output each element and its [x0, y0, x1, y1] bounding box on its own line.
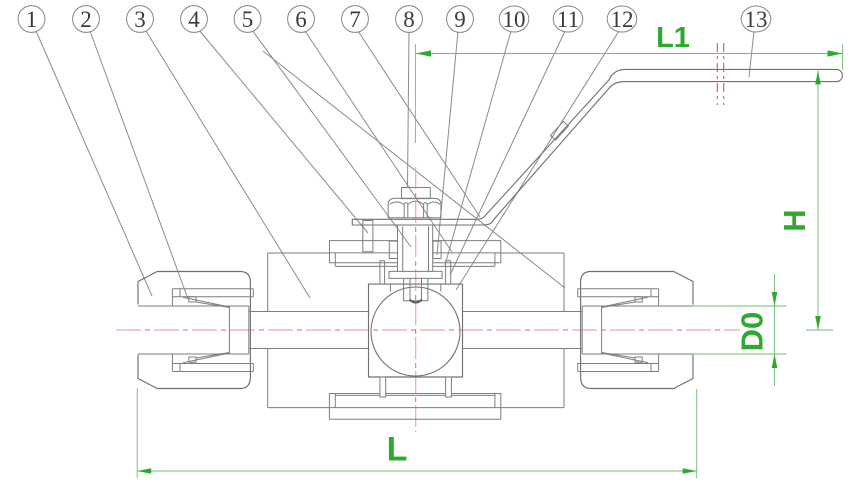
right fitting port bottom line: [582, 353, 693, 355]
left fitting port top line: [138, 305, 249, 307]
svg-text:1: 1: [26, 7, 38, 32]
callout circle 6: [288, 6, 315, 33]
leader 3: [146, 31, 310, 298]
body right face: [563, 253, 565, 408]
leader 13: [749, 31, 754, 77]
left bore top line: [249, 311, 369, 313]
svg-text:10: 10: [503, 7, 526, 32]
packing block right: [433, 241, 441, 258]
left fitting thread band top: [172, 289, 253, 297]
svg-text:7: 7: [349, 7, 361, 32]
callout circle 5: [234, 6, 261, 33]
leader 5 second segment: [263, 51, 565, 288]
callout circle 13: [741, 6, 771, 32]
L1 extension line right: [842, 44, 844, 70]
body top edge left: [268, 252, 330, 254]
callout circle 10: [499, 6, 529, 32]
leader 10: [445, 31, 511, 265]
left seat vertical: [228, 306, 230, 354]
right ferrule block top: [635, 297, 642, 302]
leader 9: [437, 31, 458, 255]
left fitting inner wall: [172, 289, 180, 372]
right fitting port top line: [582, 305, 693, 307]
right fitting thread band bottom: [578, 364, 659, 372]
L left arrow: [137, 468, 151, 474]
trunnion pin bottom-left: [380, 377, 386, 397]
body neck lip lines: [335, 263, 495, 267]
body bottom edge right: [501, 407, 564, 409]
right fitting nut outline: [581, 272, 693, 389]
hex nut facet band left: [404, 203, 408, 218]
left fitting nut outline: [138, 272, 250, 389]
stem slot outer: [404, 278, 428, 300]
leader 8: [408, 31, 410, 187]
right seat vertical: [601, 306, 603, 354]
stem housing inner lines: [403, 227, 429, 272]
L extension line left: [136, 388, 138, 478]
right bore top line: [463, 311, 583, 313]
leader 4: [199, 30, 368, 233]
left tube end vertical: [248, 306, 250, 354]
leader 12: [456, 31, 619, 290]
leader 1: [36, 31, 152, 296]
left ferrule cone bottom: [183, 353, 229, 363]
stem top: [402, 188, 431, 199]
callout numbers: [26, 7, 768, 32]
cage inner corner line left: [389, 284, 391, 291]
right ferrule cone bottom: [602, 353, 648, 363]
gland plate: [389, 271, 442, 278]
right fitting thread band top: [578, 289, 659, 297]
ball: [371, 287, 460, 376]
D0 bottom arrow (up): [772, 354, 778, 368]
stem slot bottom arc: [410, 300, 423, 303]
svg-text:9: 9: [454, 7, 466, 32]
left bore bottom line: [249, 348, 369, 350]
horizontal main centerline (long dashes): [116, 329, 740, 331]
body bottom edge left: [268, 407, 330, 409]
svg-text:6: 6: [295, 7, 307, 32]
callout circle 3: [127, 6, 154, 33]
left ferrule block top: [189, 297, 196, 302]
leader 5: [252, 30, 411, 247]
top plate left tab: [330, 253, 398, 263]
callout circle 7: [342, 6, 369, 33]
bottom plate left tab: [329, 394, 335, 408]
handle break mark right: [723, 43, 725, 105]
leader 7: [358, 31, 480, 217]
H top arrow (up): [815, 71, 821, 85]
callout circle 2: [73, 6, 100, 33]
body top edge right: [501, 252, 564, 254]
hex nut: [388, 198, 441, 218]
right fitting inner wall: [651, 289, 659, 372]
L1 right arrow: [828, 50, 843, 56]
L1 dimension line: [415, 53, 842, 55]
left ferrule block bottom: [189, 357, 196, 362]
svg-text:L: L: [387, 431, 408, 469]
svg-text:5: 5: [242, 7, 254, 32]
L1 left arrow: [416, 50, 431, 56]
svg-text:3: 3: [134, 7, 146, 32]
left ferrule cone top: [183, 297, 229, 307]
handle: [352, 69, 842, 225]
bottom plate right tab: [495, 394, 501, 408]
svg-text:H: H: [777, 209, 812, 231]
svg-text:12: 12: [611, 7, 634, 32]
right ferrule cone top: [602, 297, 648, 307]
handle grip sleeve: [551, 121, 569, 140]
svg-text:D0: D0: [734, 312, 769, 352]
svg-text:8: 8: [403, 7, 415, 32]
left fitting port bottom line: [138, 353, 249, 355]
callout circle 1: [18, 6, 45, 33]
hex nut facet band right: [424, 203, 428, 218]
vertical stem centerline (short ticks): [415, 167, 417, 432]
cage inner corner line right: [440, 284, 442, 291]
hex nut middle dome: [408, 201, 424, 204]
body left face: [267, 253, 269, 408]
stem housing: [398, 226, 433, 272]
cage box: [369, 284, 463, 377]
vertical stem centerline (long dashes): [415, 167, 417, 432]
right bore bottom line: [463, 348, 583, 350]
D0 top arrow (down): [772, 292, 778, 306]
D0 dimension line: [774, 274, 776, 386]
callout circle 12: [607, 6, 637, 32]
svg-text:2: 2: [80, 7, 92, 32]
callout circle 8: [396, 6, 423, 33]
L1 extension line left: [414, 44, 416, 143]
L extension line right: [696, 389, 698, 478]
hex nut side arcs: [390, 202, 441, 205]
L dimension line: [137, 470, 697, 472]
H bottom arrow (down): [815, 316, 821, 330]
leader 11: [450, 31, 565, 275]
leader 6: [305, 31, 452, 252]
callout circle 11: [553, 6, 583, 32]
D0 extension line top: [692, 305, 786, 307]
left fitting thread band bottom: [172, 364, 253, 372]
body lower lip lines: [335, 394, 495, 396]
H base tick: [806, 329, 833, 331]
trunnion pin top-left: [380, 261, 385, 284]
D0 extension line bottom: [692, 353, 786, 355]
bottom mounting plate: [329, 408, 500, 420]
svg-text:11: 11: [557, 7, 579, 32]
stem slot inner: [410, 278, 422, 299]
L right arrow: [683, 468, 697, 474]
top plate right tab: [433, 253, 501, 263]
svg-text:L1: L1: [656, 22, 690, 54]
callout circle 4: [181, 6, 208, 33]
horizontal main centerline (short ticks): [116, 329, 740, 331]
leader 2: [90, 31, 188, 299]
right tube end vertical: [581, 306, 583, 354]
right ferrule block bottom: [635, 357, 642, 362]
svg-text:4: 4: [188, 7, 200, 32]
bracket tab: [363, 221, 373, 252]
svg-text:13: 13: [745, 7, 768, 32]
trunnion pin top-right: [446, 261, 451, 284]
trunnion pin bottom-right: [446, 377, 452, 397]
H dimension line: [817, 71, 819, 331]
callout circle 9: [447, 6, 474, 33]
packing block left: [389, 241, 397, 258]
handle break mark left: [716, 43, 718, 105]
top mounting plate: [330, 241, 501, 253]
